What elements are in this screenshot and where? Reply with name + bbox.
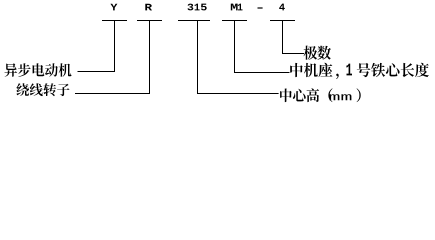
leader from R: horizontal to label (75, 93, 150, 94)
designation letter R (wound rotor) (145, 4, 152, 11)
label: number of poles (304, 46, 332, 60)
label: wound rotor (16, 83, 69, 96)
leader from 315: vertical (197, 20, 198, 94)
underline below 315 (178, 20, 210, 21)
frame size 315 (188, 4, 207, 11)
hyphen separator (258, 7, 263, 8)
underline below R (137, 20, 162, 21)
leader from 4: horizontal to label (282, 53, 304, 54)
leader from Y: vertical (114, 20, 115, 72)
leader from R: vertical (149, 20, 150, 94)
designation letter Y (asynchronous motor) (110, 4, 117, 11)
leader from M1: vertical (234, 20, 235, 73)
motor model designation diagram: Y R 315 M1 - 4 (0, 0, 435, 107)
leader from Y: horizontal to label (78, 71, 116, 72)
label: centre height (mm) (280, 88, 361, 102)
frame length code M1 (231, 4, 243, 11)
leader from M1: horizontal to label (234, 72, 290, 73)
pole count digit 4 (279, 4, 285, 11)
underline below 4 (270, 20, 295, 21)
label: medium frame, No.1 core length (290, 63, 429, 79)
leader from 315: horizontal to label (197, 93, 279, 94)
underline below Y (102, 20, 127, 21)
label: asynchronous motor (5, 63, 72, 76)
leader from 4: vertical (282, 20, 283, 54)
underline below M1 (222, 20, 247, 21)
